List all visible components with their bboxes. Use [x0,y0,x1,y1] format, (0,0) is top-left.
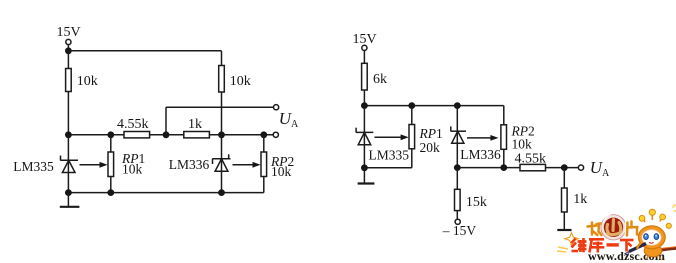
resistor 10k left branch [66,69,98,92]
watermark sparkle [557,233,579,253]
svg-text:15k: 15k [466,195,487,210]
svg-text:A: A [291,119,299,130]
diode LM335 (left circuit) [13,156,78,175]
diode LM335 (right circuit) [356,128,409,163]
resistor 15k (right circuit) [455,189,487,210]
svg-text:LM335: LM335 [13,159,54,174]
wire [363,106,365,168]
diode LM336 (left circuit) [169,154,231,172]
node junction between 4.55k and 1k [163,131,170,138]
watermark badge circle with xin character [601,215,626,240]
node junction RP2 top [260,131,267,138]
wire [456,106,458,168]
svg-text:10k: 10k [512,137,533,152]
wire [67,135,69,193]
wire [221,92,223,135]
svg-text:A: A [602,168,610,179]
node junction bottom-left [65,189,72,196]
node junction LM336 bottom [218,189,225,196]
wire [363,90,365,106]
wire [563,212,565,230]
svg-text:10k: 10k [230,74,251,89]
wire [563,168,565,188]
svg-text:4.55k: 4.55k [515,152,547,167]
ground (left circuit) [60,193,80,207]
node UA upper terminal (left circuit) [274,105,279,110]
wire [503,106,505,125]
node junction LM335 bottom (right) [361,164,368,171]
resistor 6k (right circuit) [362,63,387,90]
wire [263,177,265,193]
wire bottom bus (left circuit) [68,192,263,194]
node UA terminal (right circuit) [578,165,583,170]
svg-text:4.55k: 4.55k [117,117,149,132]
node junction LM336 top (right) [454,102,461,109]
label UA (right circuit) [590,158,610,179]
potentiometer RP2 10k (right circuit) [467,124,535,152]
wire top bus (right circuit) [364,105,503,107]
wire [411,149,413,168]
wire [67,92,69,135]
svg-text:1: 1 [436,126,443,141]
label UA (left circuit) [279,109,299,130]
resistor 4.55k (right circuit) [515,152,547,171]
node junction 10k/LM336 [218,131,225,138]
svg-text:LM336: LM336 [460,147,501,162]
resistor 4.55k (left circuit) [117,117,150,138]
watermark character pian (chip) [627,222,638,236]
node junction bus-left [65,131,72,138]
node 15V supply terminal (left circuit) [57,25,81,45]
node junction LM336 bottom bus [454,164,461,171]
svg-text:1k: 1k [188,117,202,132]
watermark mascot [625,205,676,260]
resistor 1k (left circuit) [184,117,210,138]
wire lower bus (right circuit) [457,167,578,169]
wire [67,51,69,69]
node junction RP2 bottom [500,164,507,171]
svg-text:LM336: LM336 [169,157,210,172]
node junction top-left [65,47,72,54]
wire to upper output [166,107,274,135]
ground (right circuit, 1k) [557,229,571,231]
svg-text:15V: 15V [353,32,377,47]
wire [456,168,458,190]
wire [67,45,69,51]
node 15V supply terminal (right circuit) [353,32,377,51]
svg-text:20k: 20k [420,140,441,155]
node -15V supply terminal [442,219,477,238]
resistor 10k right branch (left circuit) [219,66,251,93]
wire top rail [68,50,221,52]
svg-text:10k: 10k [77,74,98,89]
potentiometer RP1 20k (right circuit) [375,106,443,155]
wire [503,149,505,167]
potentiometer RP2 10k (left circuit) [233,152,295,179]
watermark text weiku-yixia (red) [572,238,634,253]
svg-text:RP: RP [419,126,437,141]
node junction RP1 top [107,131,114,138]
potentiometer RP1 10k (left circuit) [80,151,146,177]
svg-text:1k: 1k [573,192,587,207]
svg-text:6k: 6k [373,72,387,87]
ground (right circuit, LM335) [358,168,375,184]
svg-text:LM335: LM335 [369,148,410,163]
watermark character zhao (find) [588,223,602,236]
wire [110,177,112,193]
wire [364,167,411,169]
svg-text:10k: 10k [271,164,292,179]
wire middle bus [68,134,273,136]
node junction 1k top [561,164,568,171]
diode LM336 (right circuit) [451,126,501,162]
wire [456,211,458,220]
wire [110,135,112,152]
wire [263,135,265,152]
wire [221,135,223,193]
wire [363,51,365,64]
node UA lower terminal (left circuit) [273,132,278,137]
svg-text:15V: 15V [57,25,81,40]
node junction LM335 top [361,102,368,109]
svg-text:10k: 10k [122,161,143,176]
resistor 1k (right circuit) [562,188,588,212]
node junction RP1 bottom [107,189,114,196]
svg-text:– 15V: – 15V [442,223,477,238]
node junction RP1 top (right) [408,102,415,109]
wire [221,51,223,66]
